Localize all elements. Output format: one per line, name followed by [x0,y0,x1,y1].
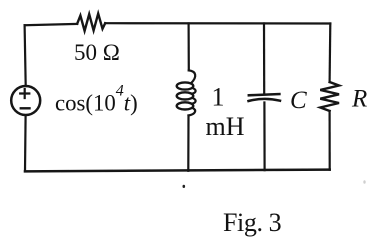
speck dot below circuit [183,185,186,188]
wire right vertical lower [329,111,331,170]
svg-text:C: C [290,87,307,114]
wire left vertical upper [25,25,26,86]
inductor L1 top lead [188,24,190,71]
capacitor C bottom lead [263,103,265,171]
wire left vertical lower [24,115,27,171]
source plus sign [20,89,29,98]
inductor L1 top hook [189,70,195,83]
resistor R 50ohm zigzag [77,14,105,31]
inductor L1 link 1-2 [193,88,196,94]
capacitor C top lead [263,24,265,94]
wire top-right segment [105,22,330,24]
svg-text:R: R [351,86,367,113]
source minus sign [21,107,30,109]
inductor L1 loop 1 [177,82,194,89]
capacitor C top plate [249,94,280,95]
inductor L1 bottom lead [187,116,189,171]
svg-text:cos(104t): cos(104t) [55,83,138,116]
capacitor C bottom plate [249,99,281,101]
inductor L1 loop 3 [177,102,194,109]
source V1 circle [11,86,40,115]
wire top-left segment [25,24,78,25]
inductor L1 loop 2 [177,92,194,99]
wire right vertical upper [329,24,332,83]
resistor R zigzag [320,82,339,111]
inductor L1 bottom hook [189,108,196,116]
svg-text:1: 1 [212,82,225,111]
svg-text:50 Ω: 50 Ω [74,40,120,65]
svg-text:mH: mH [206,112,245,141]
inductor L1 link 2-3 [193,98,196,104]
faint speck right [363,180,365,184]
svg-text:Fig. 3: Fig. 3 [223,208,281,237]
wire bottom [25,170,330,172]
